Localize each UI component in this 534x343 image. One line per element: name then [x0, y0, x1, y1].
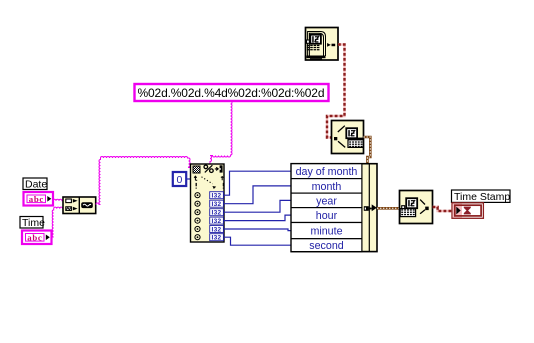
function Seconds To Date/Time — [332, 121, 364, 154]
svg-text:minute: minute — [310, 226, 342, 238]
svg-text:I32: I32 — [212, 227, 222, 234]
svg-text:second: second — [309, 240, 344, 252]
string constant format %02d.%02d.%4d%02d:%02d:%02d — [135, 84, 329, 101]
label Time Stamp — [452, 190, 511, 203]
wire format string to Scan From String — [210, 101, 232, 164]
function Date/Time To Seconds — [400, 191, 433, 224]
wire cluster U2 to Bundle By Name — [364, 137, 371, 164]
string control Date — [24, 192, 54, 206]
wire I32 to bundle day of month — [224, 171, 291, 195]
svg-text:day of month: day of month — [296, 166, 358, 178]
svg-text:I32: I32 — [212, 218, 222, 225]
svg-text:year: year — [316, 195, 337, 207]
label Date — [23, 178, 47, 190]
label Time — [20, 217, 45, 229]
wire 0 to Scan From String — [186, 178, 190, 180]
svg-text:0: 0 — [177, 174, 183, 186]
svg-text:hour: hour — [316, 210, 338, 222]
wire cluster Bundle to Date/Time To Seconds — [377, 207, 400, 210]
svg-text:I32: I32 — [212, 193, 222, 200]
svg-text:I32: I32 — [212, 210, 222, 217]
svg-text:Date: Date — [25, 178, 47, 190]
svg-text:I32: I32 — [212, 235, 222, 242]
wire I32 to bundle minute — [224, 229, 291, 231]
wire concatenated string to Scan From String — [96, 157, 191, 205]
function Get Date/Time In Seconds — [306, 28, 339, 61]
svg-text:Time: Time — [22, 217, 45, 229]
svg-text:abc: abc — [27, 232, 42, 242]
wire Time to Concatenate Strings — [52, 207, 64, 237]
wire I32 to bundle year — [224, 200, 291, 212]
svg-text:month: month — [312, 181, 342, 193]
wire I32 to bundle hour — [224, 215, 291, 221]
svg-text:%02d.%02d.%4d%02d:%02d:%02d: %02d.%02d.%4d%02d:%02d:%02d — [138, 86, 325, 100]
wire timestamp U3 to Time Stamp indicator — [433, 207, 452, 211]
wire Date to Concatenate Strings — [53, 199, 63, 201]
svg-text:abc: abc — [29, 194, 44, 204]
wire timestamp U1 to U2 — [327, 45, 345, 138]
function Bundle By Name — [291, 164, 377, 252]
string control Time — [22, 231, 52, 245]
function Concatenate Strings — [63, 197, 96, 214]
svg-text:I32: I32 — [212, 201, 222, 208]
numeric constant 0 — [173, 172, 186, 186]
wire I32 to bundle second — [224, 237, 291, 245]
wire I32 to bundle month — [224, 186, 291, 204]
indicator Time Stamp terminal — [452, 203, 483, 219]
function Scan From String — [191, 164, 225, 242]
svg-text:Time Stamp: Time Stamp — [454, 191, 510, 203]
